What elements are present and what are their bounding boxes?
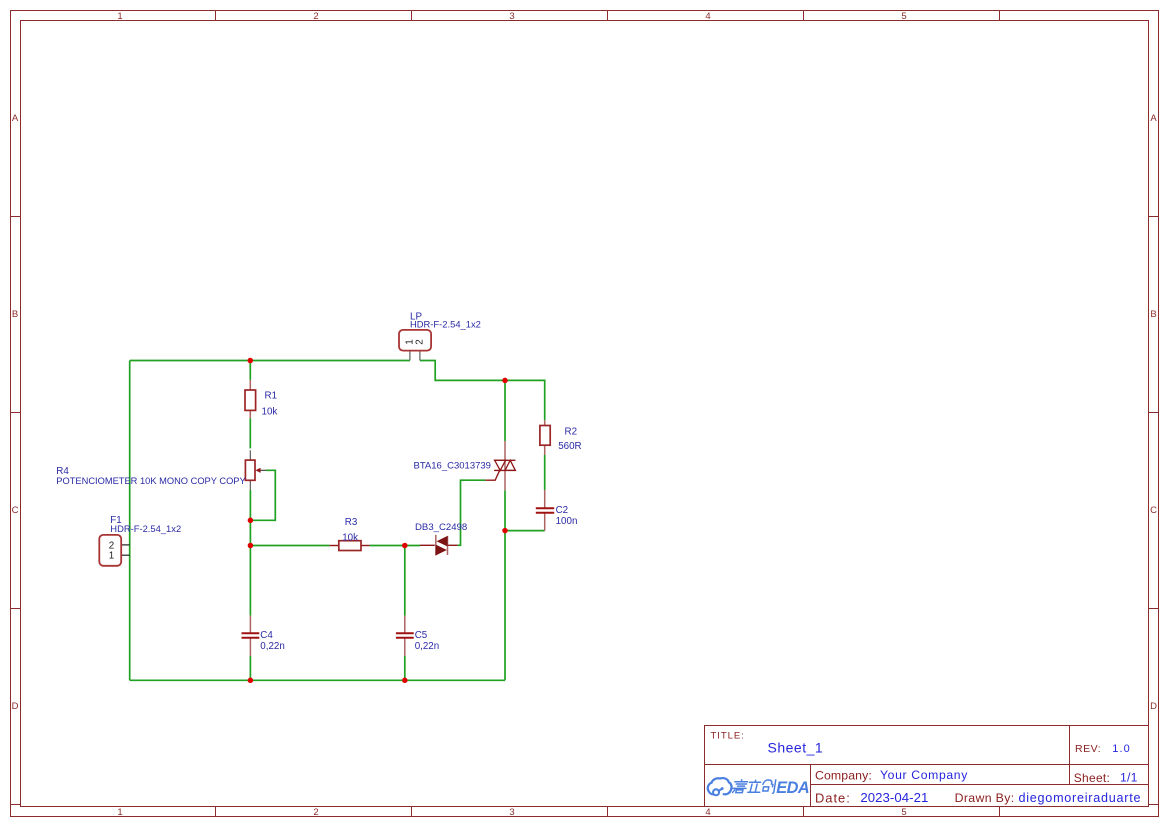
R4 pin 3 lead <box>249 480 251 490</box>
node R3-C5 <box>402 543 408 549</box>
C5 bottom plate <box>396 637 414 639</box>
svg-text:C: C <box>1150 505 1157 516</box>
svg-text:2: 2 <box>414 339 425 344</box>
R3 pin 2 lead <box>361 545 370 547</box>
wire diac to gate <box>458 480 486 545</box>
svg-text:1: 1 <box>117 807 122 818</box>
F1 pin 1 lead <box>121 554 130 556</box>
CIRCUIT <box>56 312 581 684</box>
svg-text:3: 3 <box>509 11 514 22</box>
DB3 right bar <box>447 536 449 555</box>
svg-text:DB3_C2498: DB3_C2498 <box>415 522 467 533</box>
triac top bar MT2 <box>494 459 516 461</box>
svg-text:EDA: EDA <box>776 779 809 797</box>
wire triac bottom to bottom rail <box>504 490 506 680</box>
svg-text:diegomoreiraduarte: diegomoreiraduarte <box>1019 791 1142 805</box>
wire C5 bottom to node H <box>404 656 406 680</box>
svg-text:R1: R1 <box>265 391 278 402</box>
svg-text:Sheet:: Sheet: <box>1074 771 1111 785</box>
svg-text:HDR-F-2.54_1x2: HDR-F-2.54_1x2 <box>410 319 481 330</box>
capacitor C5 <box>396 616 439 656</box>
svg-text:B: B <box>1150 309 1156 320</box>
C2 pin 2 lead <box>544 513 546 531</box>
svg-text:2023-04-21: 2023-04-21 <box>860 790 928 805</box>
svg-text:A: A <box>12 113 19 124</box>
C4 top plate <box>242 632 260 634</box>
wire pot bottom <box>249 490 251 616</box>
DB3 pin 1 lead <box>420 544 435 546</box>
svg-text:2: 2 <box>313 807 318 818</box>
svg-text:1: 1 <box>109 551 114 562</box>
LP body <box>399 330 431 351</box>
svg-text:3: 3 <box>509 807 514 818</box>
svg-text:R3: R3 <box>345 517 358 528</box>
svg-text:B: B <box>12 309 18 320</box>
wire node B to triac top <box>504 380 506 441</box>
svg-text:0,22n: 0,22n <box>415 641 440 652</box>
LP pin 1 lead <box>409 351 411 361</box>
wire LP pin2 to R2 branch <box>420 361 545 421</box>
R2 body <box>540 426 550 446</box>
svg-text:C: C <box>12 505 19 516</box>
svg-text:D: D <box>12 701 19 712</box>
R3 pin 1 lead <box>329 545 338 547</box>
svg-text:REV:: REV: <box>1075 743 1101 755</box>
resistor R2 <box>540 420 582 455</box>
TITLE BLOCK <box>705 726 1149 807</box>
R2 pin 2 lead <box>544 445 546 455</box>
svg-text:1/1: 1/1 <box>1120 771 1138 785</box>
R4 pin 1 lead <box>249 450 251 460</box>
node wiper-return <box>248 518 254 524</box>
R1 pin 2 lead <box>249 410 251 418</box>
svg-text:100n: 100n <box>556 516 578 527</box>
DB3 lower triangle <box>436 545 447 556</box>
capacitor C2 <box>536 490 578 530</box>
triac left triangle <box>495 460 506 470</box>
svg-text:C4: C4 <box>260 630 273 641</box>
svg-text:5: 5 <box>901 807 906 818</box>
R4 wiper pin 2 lead <box>261 469 266 471</box>
svg-text:1: 1 <box>117 11 122 22</box>
svg-text:1.0: 1.0 <box>1112 743 1131 755</box>
svg-text:5: 5 <box>901 11 906 22</box>
wire R2 to C2 <box>544 455 546 490</box>
wire C4 bottom <box>249 656 251 680</box>
svg-text:A: A <box>1150 113 1157 124</box>
svg-text:Company:: Company: <box>815 768 872 782</box>
node top-R1 <box>248 358 254 364</box>
svg-text:Your Company: Your Company <box>880 768 968 782</box>
LOGO <box>708 778 809 797</box>
svg-text:10k: 10k <box>342 532 358 543</box>
svg-text:Sheet_1: Sheet_1 <box>768 740 824 756</box>
triac right triangle <box>505 460 515 470</box>
wire node E to C5 top <box>404 546 406 616</box>
wire bottom <box>130 679 505 681</box>
C5 pin 2 lead <box>404 638 406 656</box>
diac DB3 <box>415 522 467 556</box>
triac bottom bar MT1 <box>494 469 516 471</box>
wire wiper return <box>250 470 275 520</box>
svg-text:2: 2 <box>313 11 318 22</box>
wire node A to R1 top <box>249 361 251 380</box>
triac gate lead <box>485 470 499 480</box>
wire node D to R3 left <box>250 545 329 547</box>
svg-text:Date:: Date: <box>815 790 851 805</box>
svg-text:R2: R2 <box>565 426 578 437</box>
C4 bottom plate <box>242 637 260 639</box>
header LP <box>399 312 481 361</box>
svg-text:D: D <box>1150 701 1157 712</box>
triac main terminal lead <box>504 441 506 490</box>
wire top <box>130 360 410 362</box>
C4 pin 2 lead <box>249 638 251 656</box>
R3 body <box>339 541 361 551</box>
capacitor C4 <box>242 616 285 656</box>
C2 bottom plate <box>536 512 554 514</box>
svg-text:Drawn By:: Drawn By: <box>955 791 1015 805</box>
wire C2 bottom <box>505 530 545 532</box>
F1 pin 2 lead <box>121 544 130 546</box>
LP pin 2 lead <box>419 351 421 361</box>
header F1 <box>99 515 181 566</box>
svg-text:2: 2 <box>109 540 114 551</box>
C2 top plate <box>536 507 554 509</box>
node triac-C2 <box>502 528 508 534</box>
R4 body <box>245 460 255 480</box>
potentiometer R4 <box>56 450 266 490</box>
wire R1 bottom to R4 top <box>249 418 251 448</box>
svg-text:10k: 10k <box>262 407 278 418</box>
C5 pin 1 lead <box>404 616 406 634</box>
DB3 left bar <box>435 535 437 556</box>
wire left vertical <box>129 361 131 681</box>
node R3-left <box>248 543 254 549</box>
svg-text:POTENCIOMETER 10K MONO COPY CO: POTENCIOMETER 10K MONO COPY COPY <box>56 476 245 486</box>
svg-text:C5: C5 <box>415 630 428 641</box>
svg-text:HDR-F-2.54_1x2: HDR-F-2.54_1x2 <box>110 523 181 534</box>
C4 pin 1 lead <box>249 616 251 634</box>
svg-text:TITLE:: TITLE: <box>711 731 745 742</box>
R4 wiper arrow <box>255 468 260 473</box>
R2 pin 1 lead <box>544 420 546 425</box>
node LP-triac <box>502 378 508 384</box>
svg-text:4: 4 <box>705 807 710 818</box>
C5 top plate <box>396 632 414 634</box>
resistor R1 <box>245 380 277 418</box>
C2 pin 1 lead <box>544 490 546 508</box>
F1 body <box>99 535 121 566</box>
wire R3 right to diac DB3 <box>370 545 420 547</box>
svg-text:4: 4 <box>705 11 710 22</box>
R1 pin 1 lead <box>249 380 251 390</box>
resistor R3 <box>329 517 369 551</box>
triac Q1 <box>414 441 516 490</box>
node C5-bottom <box>402 678 408 684</box>
svg-text:560R: 560R <box>558 441 581 452</box>
DB3 upper triangle <box>437 536 448 547</box>
R1 body <box>245 390 256 410</box>
svg-text:BTA16_C3013739: BTA16_C3013739 <box>414 461 491 472</box>
svg-text:0,22n: 0,22n <box>260 641 285 652</box>
node C4-bottom <box>248 678 254 684</box>
DB3 pin 2 lead <box>448 544 458 546</box>
svg-text:C2: C2 <box>556 505 569 516</box>
